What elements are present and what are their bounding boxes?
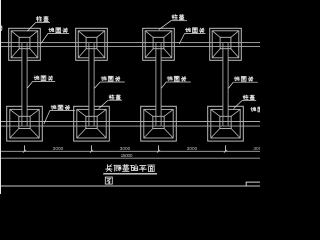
dimension tick at column line 1 <box>24 145 26 151</box>
transverse ground beam bay 4 (double line) <box>222 43 224 126</box>
left window border <box>0 0 2 194</box>
pile footing bottom row #1 <box>7 106 43 141</box>
transverse ground beam bay 1 (double line) <box>21 43 23 126</box>
svg-text:3000: 3000 <box>187 146 198 152</box>
drawing title 长廊基础平面 <box>106 165 112 172</box>
label 地圈梁 (top beam, bay 1-2) <box>41 28 69 44</box>
label 地圈梁 (transverse beam bay 3) <box>161 76 190 88</box>
title underline <box>103 173 157 175</box>
label 地圈梁 (transverse beam bay 2) <box>94 76 124 88</box>
pile footing bottom row #3 <box>141 106 177 141</box>
transverse ground beam bay 3 (double line) <box>155 43 157 126</box>
title block corner box at bottom right <box>246 182 260 186</box>
label 地圈梁 (bottom beam, bay 1-2) <box>44 105 75 124</box>
pile footing bottom row #2 <box>74 106 110 141</box>
dimension line 15000 <box>0 157 260 159</box>
longitudinal ground beam bottom row (double line) <box>0 121 260 123</box>
dimension line 3000s <box>0 150 260 152</box>
trimmed gaps at beam crossings <box>22 55 27 61</box>
bottom separator line <box>0 185 260 187</box>
label 地圈梁 (transverse beam bay 1) <box>27 76 55 88</box>
label 地圈梁 (top beam, bay 3-4) <box>179 28 205 44</box>
dimension tick at column line 4 <box>225 145 227 151</box>
label 柱基 (bottom footing 4) with leader <box>234 95 257 109</box>
pile footing bottom row #4 <box>208 106 244 141</box>
pile footing top row #4 <box>210 28 242 60</box>
label 柱基 (top footing 3) with leader <box>159 15 187 30</box>
partial label 地圈梁 at right edge (clipped) <box>251 107 256 111</box>
longitudinal ground beam top row (double line) <box>0 41 260 43</box>
pile footing top row #3 <box>143 28 175 60</box>
label 地圈梁 (transverse beam bay 4) <box>228 77 257 89</box>
partial label fragment at left edge <box>0 26 2 31</box>
label 柱基 (bottom footing 2) with leader <box>99 95 122 109</box>
label 柱基 (top footing 1) with leader <box>27 16 50 31</box>
pile footing top row #2 <box>76 28 108 60</box>
title second line 图 <box>105 177 112 184</box>
svg-text:3000: 3000 <box>253 146 260 152</box>
dimension tick at column line 2 <box>91 145 93 151</box>
transverse ground beam bay 2 (double line) <box>88 43 90 126</box>
svg-text:15000: 15000 <box>121 153 133 159</box>
pile footing top row #1 <box>9 28 41 60</box>
svg-text:3000: 3000 <box>120 146 131 152</box>
dimension tick at column line 3 <box>158 145 160 151</box>
svg-text:3000: 3000 <box>53 146 64 152</box>
